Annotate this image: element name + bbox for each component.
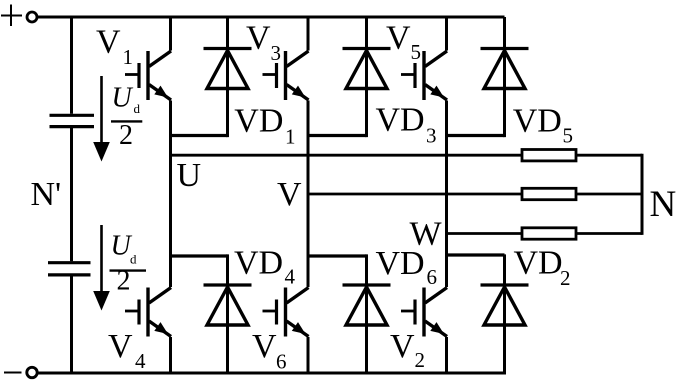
- svg-text:VD: VD: [513, 102, 562, 139]
- label V3: [246, 20, 281, 66]
- svg-text:V: V: [386, 20, 411, 57]
- svg-text:2: 2: [117, 266, 131, 297]
- svg-text:1: 1: [123, 45, 134, 69]
- svg-text:2: 2: [560, 266, 571, 290]
- label V4: [108, 328, 146, 373]
- wire: leg V top pair connector: [308, 134, 367, 137]
- label VD1: [234, 102, 295, 148]
- svg-text:d: d: [134, 101, 141, 116]
- wire: load neutral vertical: [641, 154, 644, 235]
- transistor V3: [263, 51, 309, 100]
- svg-text:3: 3: [271, 41, 282, 65]
- diode VD2: [481, 285, 529, 325]
- wire: leg U top pair connector: [171, 134, 228, 137]
- svg-text:VD: VD: [234, 102, 283, 139]
- plus terminal sign: [1, 5, 22, 27]
- label V5: [386, 20, 421, 65]
- wire: phase V leg rail lower: [307, 337, 310, 373]
- label VD3: [376, 102, 437, 148]
- wire: phase W output line: [447, 232, 643, 235]
- wire: phase U leg rail lower: [169, 337, 172, 373]
- svg-text:V: V: [252, 328, 277, 365]
- svg-text:4: 4: [285, 265, 296, 289]
- label V6: [252, 328, 287, 374]
- diode VD3: [343, 49, 391, 89]
- label VD4: [234, 245, 296, 289]
- wire: diode column 1 lower rail: [226, 254, 229, 373]
- wire: phase U leg rail upper: [169, 17, 172, 51]
- wire: capacitor branch middle segment: [70, 128, 73, 261]
- svg-text:1: 1: [285, 124, 296, 148]
- load resistor phase W: [522, 228, 576, 239]
- svg-text:6: 6: [427, 265, 438, 289]
- svg-text:2: 2: [415, 348, 426, 372]
- transistor V5: [401, 51, 447, 100]
- svg-text:VD: VD: [376, 102, 425, 139]
- label VD6: [376, 245, 438, 289]
- svg-text:V: V: [108, 328, 133, 365]
- svg-text:N': N': [31, 176, 62, 213]
- voltage arrow Ud/2 upper: [93, 76, 110, 162]
- wire: leg V bottom pair connector: [308, 254, 367, 257]
- svg-text:VD: VD: [514, 245, 563, 282]
- svg-text:V: V: [277, 176, 302, 213]
- wire: diode column 1 upper rail: [226, 17, 229, 137]
- svg-text:U: U: [112, 83, 134, 114]
- diode VD1: [204, 49, 252, 89]
- svg-text:V: V: [96, 24, 121, 61]
- wire: phase V output line: [308, 193, 642, 196]
- svg-text:V: V: [390, 328, 415, 365]
- svg-text:d: d: [130, 252, 137, 267]
- wire: capacitor branch upper segment: [70, 17, 73, 114]
- load resistor phase U: [522, 150, 576, 161]
- svg-text:VD: VD: [234, 245, 283, 282]
- label V2: [390, 328, 425, 372]
- diode VD4: [204, 285, 252, 325]
- label VD2: [514, 245, 571, 290]
- label V1: [96, 24, 133, 70]
- svg-text:V: V: [246, 20, 271, 57]
- transistor V1: [125, 51, 171, 100]
- svg-text:5: 5: [411, 40, 422, 64]
- diode VD5: [481, 49, 529, 89]
- minus terminal sign: [4, 372, 22, 374]
- wire: capacitor branch lower segment: [70, 276, 73, 373]
- wire: leg W top pair connector: [447, 134, 505, 137]
- wire: phase W leg rail middle: [445, 101, 448, 288]
- label VD5: [513, 102, 573, 147]
- svg-text:3: 3: [426, 124, 437, 148]
- wire: phase U output line: [171, 154, 643, 157]
- capacitor C2 plates: [48, 263, 91, 275]
- positive input terminal circle: [27, 12, 37, 22]
- wire: phase W leg rail lower: [445, 337, 448, 373]
- svg-text:N: N: [650, 184, 677, 225]
- wire: phase W leg rail upper: [445, 17, 448, 51]
- voltage arrow Ud/2 lower: [93, 225, 110, 311]
- transistor V4: [125, 288, 171, 337]
- load resistor phase V: [522, 188, 576, 199]
- svg-text:W: W: [410, 216, 443, 253]
- wire: leg U bottom pair connector: [171, 254, 228, 257]
- transistor V2: [401, 288, 447, 337]
- wire: bottom DC bus rail: [37, 372, 506, 375]
- svg-text:5: 5: [563, 124, 574, 148]
- wire: leg W bottom pair connector: [447, 253, 505, 256]
- svg-text:2: 2: [119, 120, 133, 151]
- label Ud/2 lower: [110, 231, 147, 297]
- label Ud/2 upper: [111, 83, 142, 152]
- svg-text:6: 6: [276, 350, 287, 374]
- diode VD6: [343, 285, 391, 325]
- wire: diode column 3 lower rail: [503, 254, 506, 373]
- transistor V6: [263, 288, 309, 337]
- wire: diode column 2 lower rail: [365, 254, 368, 373]
- wire: phase U leg rail middle: [169, 101, 172, 288]
- wire: diode column 3 upper rail: [503, 17, 506, 137]
- wire: diode column 2 upper rail: [365, 17, 368, 137]
- svg-text:U: U: [177, 157, 202, 194]
- wire: top DC bus rail: [37, 16, 504, 19]
- capacitor C1 plates: [50, 115, 95, 126]
- wire: phase V leg rail middle: [307, 101, 310, 288]
- negative input terminal circle: [27, 367, 37, 377]
- svg-text:4: 4: [135, 349, 146, 373]
- wire: phase V leg rail upper: [307, 17, 310, 51]
